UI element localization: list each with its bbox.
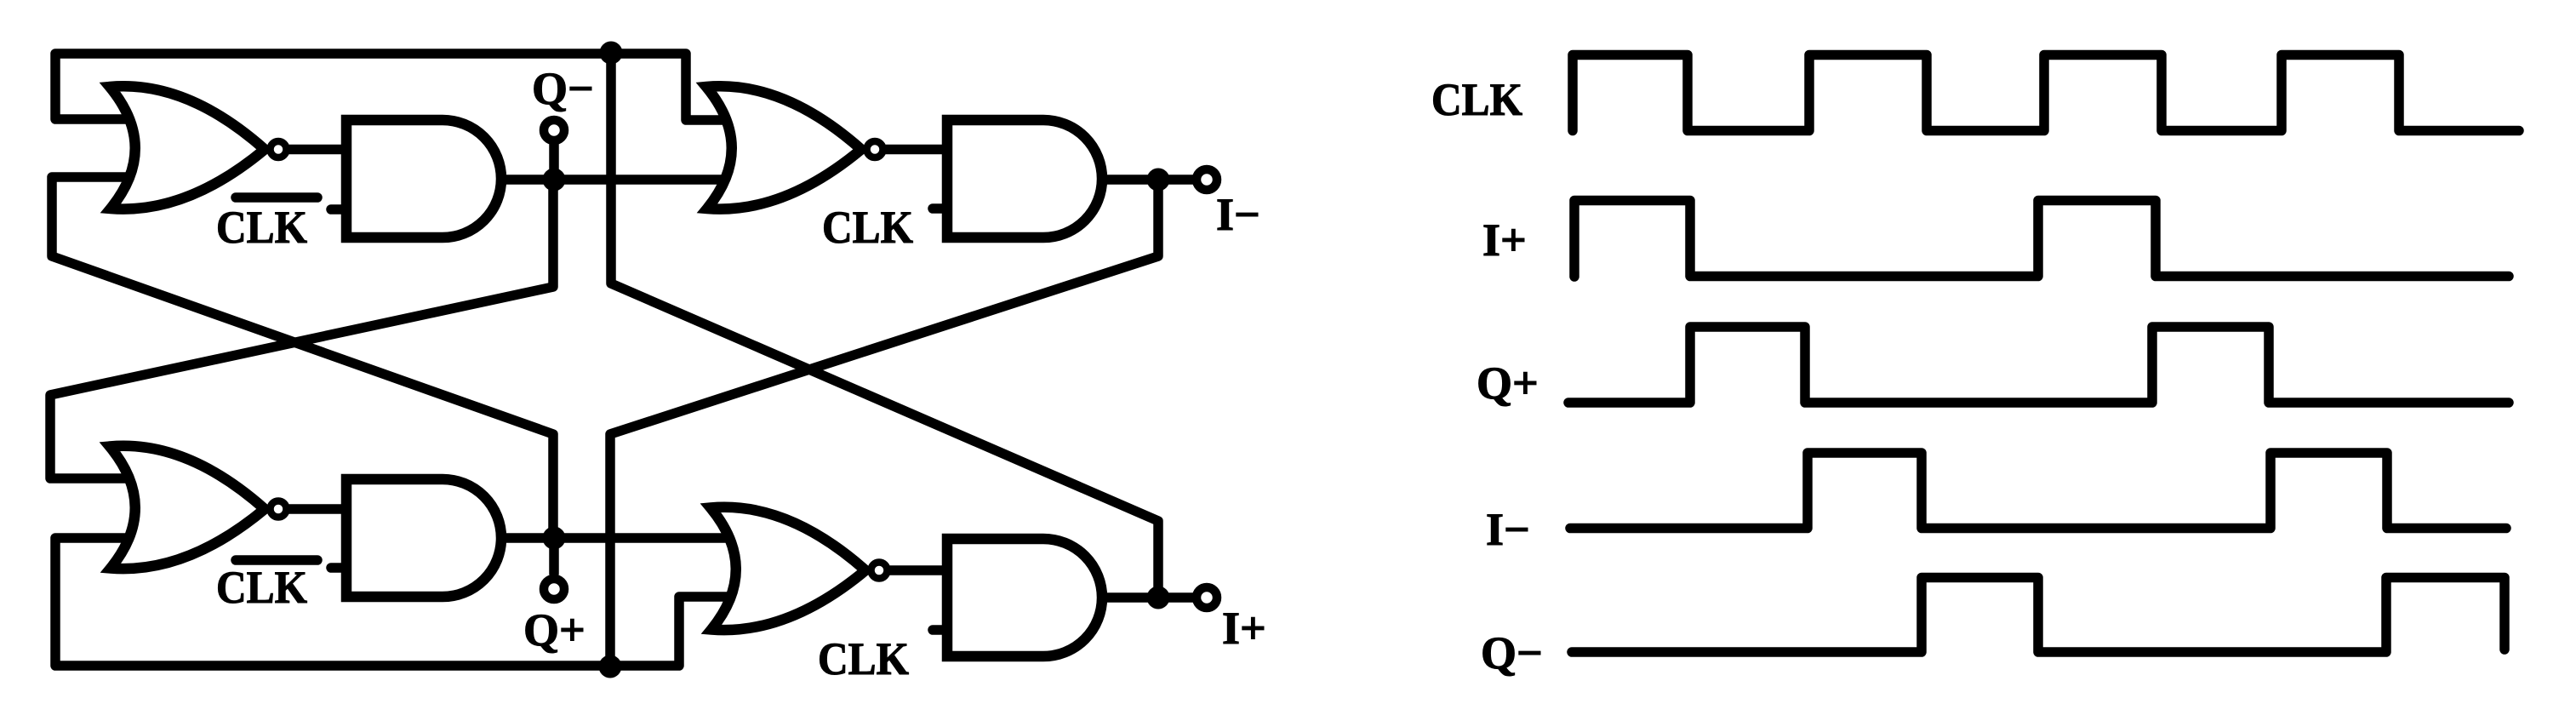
svg-text:I−: I− [1486,504,1530,555]
NOR gate U5 bottom-left [110,446,265,569]
svg-text:CLK: CLK [1431,74,1522,125]
inverter bubble NOR3 [271,501,287,518]
wire I- feedback vertical, diagonal D4, vertical to bottom rail [610,180,1158,666]
wire NOR4 bubble to AND4 [890,565,947,575]
svg-text:Q+: Q+ [523,604,585,655]
wire AND2 output to I- terminal [1100,175,1193,185]
AND gate U2 top-left [346,120,501,237]
waveform CLK trace [1573,55,2519,131]
junction dot I+ node [1147,587,1170,609]
label CLKbar overline top-left [236,192,317,203]
waveform I- trace [1570,453,2506,529]
svg-text:Q−: Q− [532,63,594,114]
svg-text:I+: I+ [1222,603,1266,654]
wire AND3 output to Q+ node to NOR4 top input [499,533,734,543]
wire long vertical from top rail, diagonal D3 down to I+ node [611,54,1158,598]
AND gate U6 bottom-left [346,479,501,597]
wire NOR3 bubble to AND3 [289,504,346,514]
NOR gate U3 top-right [706,86,861,209]
inverter bubble NOR2 [867,141,883,157]
wire NOR2 bubble to AND2 [886,145,947,155]
inverter bubble NOR4 [871,563,888,579]
wire top rail with left loop into NOR1 top input and right step into NOR2 top input [55,54,730,120]
svg-text:CLK: CLK [818,633,909,684]
wire Q- node vertical, diagonal D2 to NOR3 top input [50,180,553,478]
NOR gate U7 bottom-right [711,507,865,630]
wire Q+ terminal stub [549,538,559,574]
waveform Q- trace [1572,578,2505,653]
waveform I+ trace [1574,201,2509,278]
inverter bubble NOR1 [271,141,287,157]
junction dot Q+ node [543,527,566,550]
junction dot I- node [1147,169,1170,192]
terminal I- [1197,169,1217,190]
junction dot Q- node [543,169,566,192]
svg-text:I+: I+ [1482,215,1527,266]
terminal Q- [544,120,564,140]
svg-text:I−: I− [1216,189,1260,240]
svg-text:CLK: CLK [822,202,913,253]
AND gate U4 top-right [947,120,1102,237]
wire NOR1 bubble to AND1 [289,145,346,155]
junction dot top rail [600,42,623,65]
waveform Q+ trace [1568,327,2509,403]
terminal Q+ [544,579,564,599]
wire Q- terminal stub [549,145,559,180]
svg-text:CLK: CLK [216,202,307,253]
wire bottom rail with left loop into NOR3 lower input and right step into NOR4 lower input [55,538,735,666]
svg-text:Q−: Q− [1481,627,1543,678]
wire AND4 output to I+ terminal [1100,592,1193,603]
label CLKbar overline bottom-left [236,555,317,565]
terminal I+ [1197,587,1217,608]
NOR gate U1 top-left [110,86,265,209]
svg-text:CLK: CLK [216,562,307,613]
svg-text:Q+: Q+ [1476,358,1539,409]
wire CLKbar stub into AND3 [331,563,346,573]
wire AND1 output to Q- node to NOR2 lower input [499,175,730,185]
wire CLK stub into AND2 [933,203,947,214]
AND gate U8 bottom-right [947,539,1102,656]
wire CLK stub into AND4 [933,625,947,635]
junction dot bottom rail [599,655,622,678]
wire Q+ feedback to NOR1 lower input (vertical, diagonal D1, vertical to Q+ node) [52,177,553,538]
wire CLKbar stub into AND1 [331,204,346,215]
